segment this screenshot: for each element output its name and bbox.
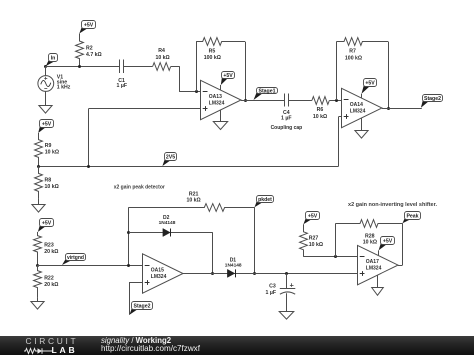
svg-text:x2 gain non-inverting level sh: x2 gain non-inverting level shifter. [348,202,437,208]
svg-text:4.7 kΩ: 4.7 kΩ [86,52,102,58]
label R28 [363,233,377,245]
wire R7 riser left [336,42,338,100]
logo LAB [52,345,78,355]
ground (OA14) [355,131,368,139]
wire D2 cathode [171,233,213,274]
wire OA14 output [382,108,422,110]
svg-text:10 kΩ: 10 kΩ [186,198,200,204]
svg-text:100 kΩ: 100 kΩ [345,55,362,61]
source V1 [38,66,54,105]
ground (R8) [32,205,45,213]
title text [101,336,171,345]
url text [101,344,200,353]
svg-text:20 kΩ: 20 kΩ [44,249,58,255]
wire OA17 V- pin [377,275,379,288]
node In junction dot [44,65,47,68]
label R8 [45,178,59,190]
label V1 [57,75,71,91]
junction dot D2 left [127,231,130,234]
svg-text:1 µF: 1 µF [266,290,276,296]
junction dot R7 left [335,99,338,102]
flag pkdet [255,196,274,208]
svg-text:x2 gain peak detector: x2 gain peak detector [114,185,165,191]
wire R7 riser right [388,42,390,108]
label R6 [313,107,327,120]
label C3 [266,284,276,296]
svg-text:R6: R6 [317,107,324,113]
label D1 [225,257,242,268]
flag Stage1 [254,88,278,101]
wire R22 to ground [37,298,39,302]
diode D1 [227,269,235,277]
svg-text:pkdet: pkdet [258,197,272,203]
flag Stage2 (OA15 input) [130,302,153,315]
resistor R21 [129,204,255,212]
svg-text:+5V: +5V [223,73,233,79]
svg-text:R7: R7 [349,49,356,55]
svg-text:Stage2: Stage2 [133,303,150,309]
svg-text:10 kΩ: 10 kΩ [155,55,169,61]
power flag +5V (R23) [38,219,54,232]
resistor R7 feedback [336,38,388,46]
wire R21 left riser [128,207,130,265]
resistor R8 [35,166,43,199]
svg-text:+5V: +5V [383,238,393,244]
svg-text:Peak: Peak [406,213,418,219]
svg-text:R9: R9 [45,143,52,149]
wire OA15 non-inverting input [130,282,143,315]
junction dot C3 top [285,272,288,275]
label R27 [309,235,323,247]
svg-text:+5V: +5V [84,22,94,28]
svg-text:10 kΩ: 10 kΩ [313,114,327,120]
wire R28 riser left [335,223,337,257]
wire D2 anode [129,232,163,234]
svg-text:C3: C3 [269,284,276,290]
op-amp OA13 [201,80,242,119]
resistor R9 [35,133,43,166]
resistor R4 [153,63,171,71]
svg-text:D2: D2 [163,215,170,221]
flag In [46,54,58,67]
svg-text:2V5: 2V5 [166,154,175,160]
svg-text:R28: R28 [365,233,375,239]
wire OA15 output [183,273,358,275]
svg-text:R2: R2 [86,46,93,52]
resistor R23 [34,232,42,265]
junction dot virtgnd [36,264,39,267]
wire OA17 output [398,265,403,267]
resistor R22 [34,265,42,298]
svg-text:OA14: OA14 [350,102,363,108]
capacitor C4 [285,94,289,107]
svg-text:virtgnd: virtgnd [67,255,84,261]
wire C1 to R4 [123,66,153,68]
svg-text:LM324: LM324 [366,266,382,272]
resistor R28 feedback [336,220,403,228]
wire OA13 output [241,100,285,102]
wire R28 riser right [402,223,404,265]
logo CIRCUIT [26,336,79,346]
junction dot R2 bottom [78,65,81,68]
svg-text:10 kΩ: 10 kΩ [309,242,323,248]
wire pkdet riser [254,207,256,273]
ground (V1) [39,106,52,114]
svg-text:OA17: OA17 [366,259,379,265]
resistor R6 [312,97,329,105]
junction dot OA15 inverting [127,264,130,267]
wire OA13 V- pin [220,110,222,122]
junction dot D2 right [211,272,214,275]
wire R4 to OA13 inverting input [171,66,201,91]
ground (OA13) [213,122,227,130]
svg-text:1N4148: 1N4148 [225,263,242,269]
label R9 [45,143,59,156]
svg-text:R27: R27 [309,235,319,241]
flag virtgnd [62,254,86,266]
label C1 [117,78,127,89]
resistor R2 [76,34,84,67]
junction dot R28 left [334,255,337,258]
svg-text:R5: R5 [209,48,216,54]
svg-text:20 kΩ: 20 kΩ [44,282,58,288]
wire OA13 non-inverting input [89,109,201,167]
svg-text:LM324: LM324 [151,274,167,280]
text x2 gain peak detector [114,185,165,191]
svg-text:+5V: +5V [42,121,52,127]
capacitor C1 [120,60,124,74]
svg-text:+5V: +5V [42,220,52,226]
power flag +5V (OA13) [221,72,235,86]
wire virtgnd rail [38,265,142,267]
power flag +5V (R27) [303,212,319,225]
label R23 [44,243,58,255]
svg-text:10 kΩ: 10 kΩ [363,240,377,246]
op-amp OA14 [342,88,383,127]
label Coupling cap [271,125,303,131]
label R5 [204,48,221,61]
op-amp OA17 [358,245,399,284]
diode D2 [163,229,171,237]
svg-text:In: In [51,55,56,61]
svg-text:1N4148: 1N4148 [159,220,176,226]
capacitor C3 [280,273,296,311]
svg-text:1 µF: 1 µF [281,116,291,122]
power flag +5V (OA14) [362,79,377,94]
wire C4 to R6 [289,100,312,102]
wire OA14 V+ pin [361,94,363,98]
svg-text:R4: R4 [158,48,165,54]
flag 2V5 [162,153,176,167]
svg-text:1 kHz: 1 kHz [57,85,71,91]
svg-text:LM324: LM324 [350,109,366,115]
svg-text:Coupling cap: Coupling cap [271,125,303,131]
ground (C3) [279,312,294,320]
footer bar [0,336,474,355]
wire R27 to OA17 inverting [303,256,357,258]
text x2 gain non-inverting level shifter [348,202,437,208]
wire OA14 V- pin [361,118,363,130]
wire OA13 V+ pin [220,85,222,90]
svg-text:OA13: OA13 [209,94,222,100]
power flag +5V (R2) [79,21,95,34]
power flag +5V (R9) [38,120,53,134]
svg-text:R23: R23 [44,243,54,249]
svg-text:+5V: +5V [308,213,318,219]
ground (R22) [31,302,44,310]
label R22 [44,276,58,289]
junction dot pkdet bottom [253,272,256,275]
label R21 [186,191,200,203]
power flag +5V (OA17) [379,237,395,251]
flag Stage2 (OA14 output) [421,95,443,108]
svg-text:Stage1: Stage1 [258,88,275,94]
junction dot R7 right [387,107,390,110]
junction dot feedback left [195,90,198,93]
svg-text:LM324: LM324 [209,101,225,107]
wire top rail V1 to C1 [46,66,120,68]
label D2 [159,215,176,226]
wire R8 to ground [38,199,40,205]
svg-text:Stage2: Stage2 [424,96,441,102]
label R4 [155,48,169,61]
wire 2V5 rail [38,166,339,168]
svg-text:D1: D1 [230,257,237,263]
svg-text:R8: R8 [45,178,52,184]
svg-text:10 kΩ: 10 kΩ [45,150,59,156]
resistor R5 feedback [196,38,245,46]
svg-text:OA15: OA15 [151,268,164,274]
svg-text:100 kΩ: 100 kΩ [204,55,221,61]
svg-text:R22: R22 [44,276,54,282]
ground (OA17) [372,288,384,296]
label R2 value [86,46,102,59]
resistor R27 [300,224,308,256]
op-amp OA15 [143,254,184,293]
wire feedback riser right [245,42,247,100]
logo schematic squiggle [24,347,54,355]
label R7 [345,49,362,62]
wire OA17 V+ pin [378,250,380,255]
wire feedback riser left [196,42,198,92]
svg-text:+5V: +5V [365,80,375,86]
wire R6 to OA14 [329,100,341,102]
wire OA14 non-inverting to 2V5 rail [339,117,342,167]
label C4 [281,110,291,122]
svg-text:10 kΩ: 10 kΩ [45,184,59,190]
junction dot rail left [37,165,40,168]
svg-text:R21: R21 [189,191,199,197]
flag Peak [403,212,421,224]
junction dot rail riser [87,165,90,168]
svg-text:1 µF: 1 µF [117,83,127,89]
junction dot feedback right [244,99,247,102]
